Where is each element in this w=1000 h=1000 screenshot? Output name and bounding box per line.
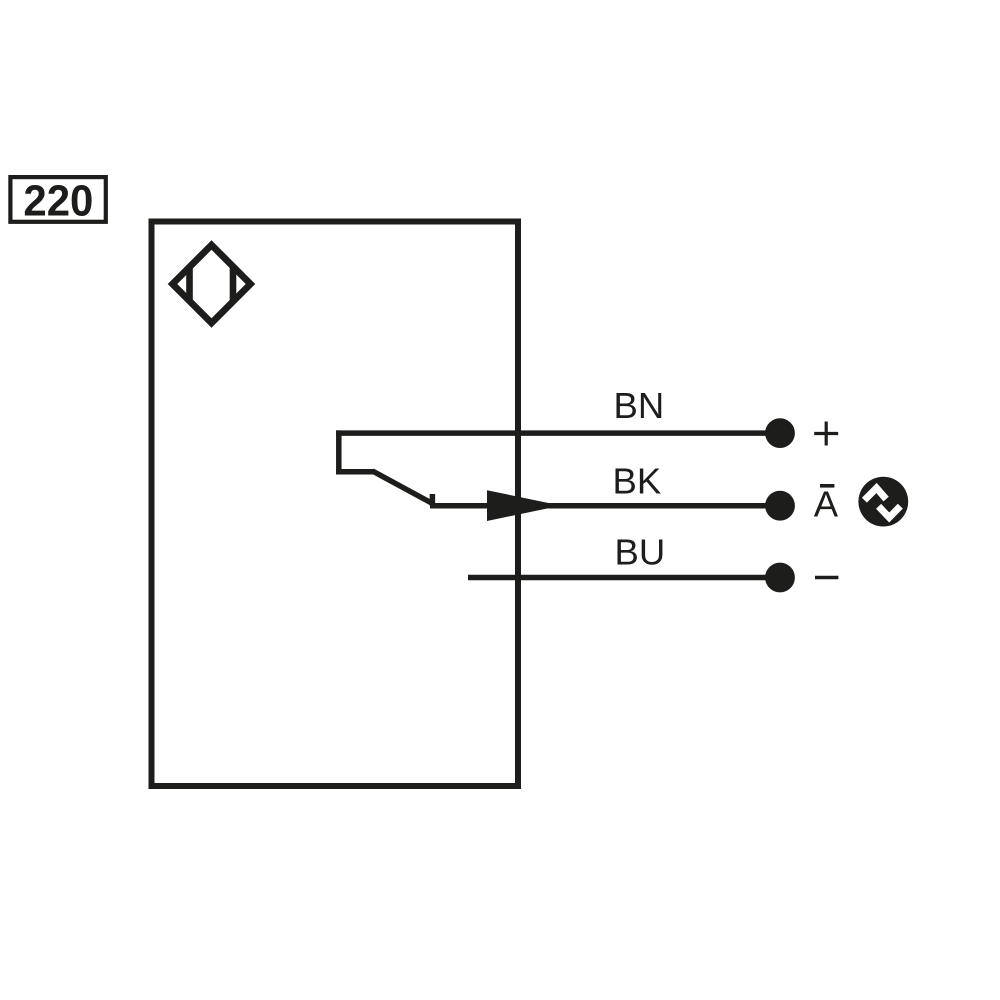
- output arrow on BK line: [487, 490, 561, 521]
- switch: stub: [336, 469, 374, 475]
- wire BK: [430, 503, 772, 509]
- proximity sensor symbol: diamond: [173, 245, 251, 323]
- macron over A: [820, 484, 834, 488]
- terminal dot: BU / -: [765, 563, 795, 593]
- svg-text:BK: BK: [613, 460, 662, 501]
- svg-text:BU: BU: [615, 531, 666, 572]
- proximity sensor symbol: left chord: [186, 266, 193, 303]
- svg-text:220: 220: [23, 177, 93, 226]
- svg-text:BN: BN: [614, 385, 665, 426]
- changeover (complementary output) icon: [858, 477, 908, 527]
- terminal dot: BN / +: [765, 418, 795, 448]
- switch: lever (diagonal): [373, 471, 432, 503]
- terminal dot: BK / A: [765, 491, 795, 521]
- polarity plus: [814, 422, 838, 446]
- switch: base tick: [430, 494, 436, 506]
- proximity sensor symbol: right chord: [230, 266, 237, 303]
- wire BN: [336, 430, 772, 436]
- figure number box 220: [10, 177, 105, 226]
- svg-text:A: A: [814, 484, 839, 525]
- sensor body outline: [152, 222, 519, 787]
- switch: riser from BN wire: [336, 430, 342, 471]
- polarity minus: [815, 576, 838, 580]
- wire BU: [468, 575, 772, 581]
